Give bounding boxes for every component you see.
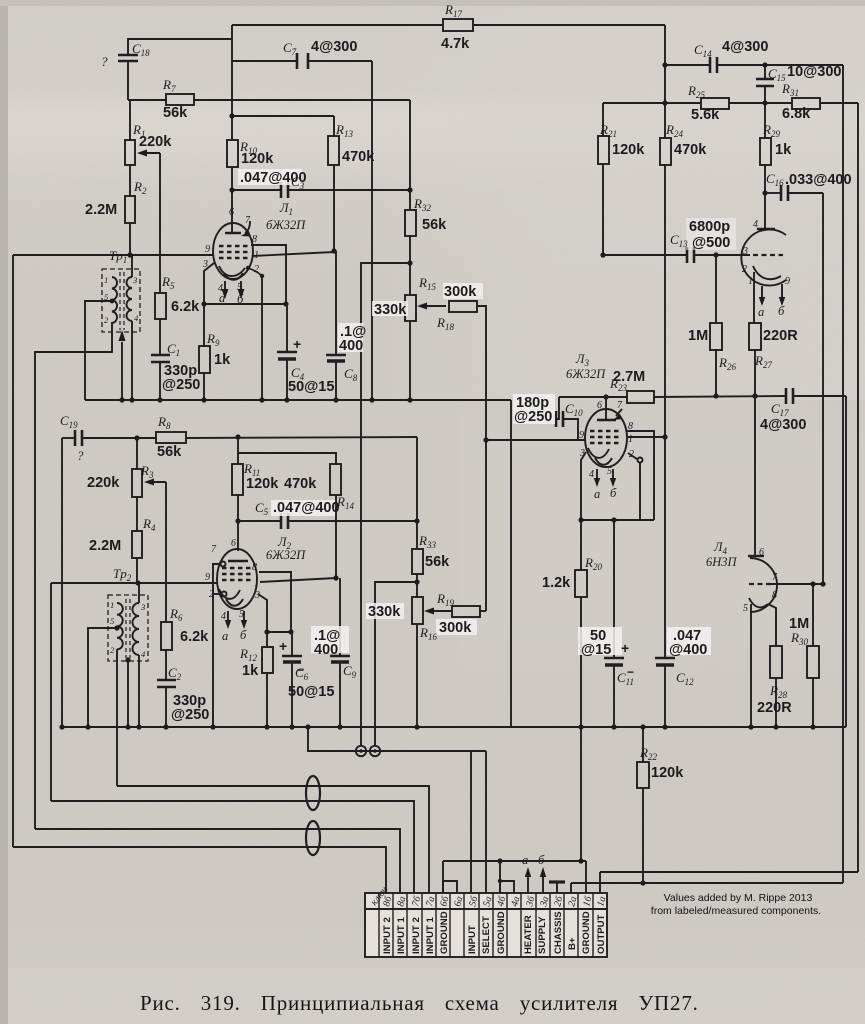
wire: stage2 cathode line y=632 <box>267 631 291 633</box>
capacitor C7 <box>296 53 299 69</box>
wire: vertical x=232 from top wire to R10 <box>231 25 233 140</box>
wire: select risers to connector 5b 5a <box>470 751 472 893</box>
svg-text:@15: @15 <box>581 642 611 658</box>
wire: input line 7b <box>51 801 414 893</box>
heater arrow a (3b) <box>527 874 529 893</box>
resistor R27 220R <box>749 323 761 350</box>
Л3 pin6 stub <box>605 397 607 420</box>
svg-text:3: 3 <box>202 259 208 270</box>
wire: B+ riser at connector 2a <box>570 883 572 893</box>
heater arrow b (3a) <box>542 874 544 893</box>
capacitor C16 <box>765 192 781 194</box>
svg-text:1: 1 <box>104 275 108 285</box>
svg-text:330k: 330k <box>374 302 407 318</box>
Л1 pin1 anode wire <box>252 252 334 256</box>
capacitor C5 <box>280 513 283 529</box>
capacitor C9 <box>339 578 341 656</box>
wire: R23 line y=397 <box>559 396 627 398</box>
shielded pair oval 2 <box>306 821 320 855</box>
svg-text:а: а <box>222 629 228 643</box>
Tp2 primary winding <box>117 603 123 649</box>
Л3 pin7 arrow <box>616 409 622 416</box>
capacitor C3 <box>280 182 283 198</box>
svg-text:GROUND: GROUND <box>496 911 507 954</box>
resistor R12 <box>266 632 268 647</box>
svg-text:4: 4 <box>589 469 594 480</box>
wire: feedback tap left then down to select <box>361 263 410 746</box>
wire: Tp2 pin4 down to rail <box>138 655 140 727</box>
Л1 pin7 arrow <box>245 221 250 233</box>
wire: output riser at connector 1a <box>599 872 601 893</box>
wiper arrow R15 from R18 <box>421 305 446 307</box>
wire: top wire corner down x=665 <box>664 25 666 138</box>
Л1 heater legs with arrows <box>224 281 226 291</box>
wire: vertical x=372 from C7 down to stage1 rail <box>371 61 373 400</box>
svg-text:4: 4 <box>221 611 226 622</box>
resistor R23 2.7M <box>627 391 654 403</box>
node: rail dots stage1 <box>119 397 124 402</box>
svg-text:б: б <box>240 628 247 642</box>
svg-text:300k: 300k <box>439 620 472 636</box>
resistor R22 120k <box>640 724 645 729</box>
Л2 pin7 circle <box>221 562 226 567</box>
svg-text:1.2k: 1.2k <box>542 575 571 591</box>
Tp2 secondary winding <box>133 603 139 655</box>
potentiometer R3 <box>136 438 138 469</box>
wire: Л3 grid line y=440 <box>486 439 586 441</box>
svg-text:50@15: 50@15 <box>288 379 334 395</box>
resistor R20 1.2k <box>580 520 582 570</box>
svg-text:6: 6 <box>231 538 236 549</box>
Tp1 core ground arrow <box>121 342 123 400</box>
jack circle A <box>356 746 366 756</box>
wire: riser 6b to bus <box>442 861 444 893</box>
svg-text:3: 3 <box>132 275 137 285</box>
Л3 pin8 wire down right <box>626 431 654 520</box>
Л4b grid dashes <box>749 583 771 585</box>
wire: plate stub x=755 down <box>754 396 756 556</box>
wire: stage2 feedback tap to select <box>375 582 417 746</box>
Л2 cathode arc <box>219 589 240 599</box>
svg-text:HEATER: HEATER <box>523 915 534 954</box>
svg-text:1: 1 <box>110 600 114 610</box>
resistor R19 <box>452 606 480 617</box>
svg-text:B+: B+ <box>567 937 578 950</box>
svg-text:400: 400 <box>339 338 363 354</box>
svg-text:−: − <box>297 663 304 677</box>
svg-text:6Ж32П: 6Ж32П <box>566 367 606 381</box>
svg-text:8: 8 <box>772 590 777 601</box>
svg-text:@250: @250 <box>162 377 200 393</box>
resistor R29 <box>764 103 766 138</box>
tube U4a (Л4 upper triode) <box>741 229 786 285</box>
wire: Tp1 pin2 down-left route <box>35 322 112 829</box>
transformer Tp2 dashed box <box>108 595 148 661</box>
svg-text:5: 5 <box>110 616 114 626</box>
svg-text:10@300: 10@300 <box>787 64 841 80</box>
svg-text:5: 5 <box>237 282 242 293</box>
capacitor C13 <box>686 247 689 263</box>
Tp1 secondary winding <box>127 277 133 321</box>
transformer winding numbers <box>104 275 146 659</box>
Tp1 primary winding <box>112 277 117 323</box>
svg-text:3: 3 <box>579 448 585 459</box>
Л3 pin1 anode wire <box>627 436 665 438</box>
capacitor C6 electrolytic <box>291 632 293 656</box>
wire: R14 bottom to anode node <box>335 521 337 578</box>
svg-text:?: ? <box>101 54 108 69</box>
wire: input line 8a <box>35 829 400 893</box>
tube U2 (Л2) envelope <box>217 549 257 609</box>
tube U1 (Л1) envelope <box>213 223 253 279</box>
svg-text:220R: 220R <box>757 700 792 716</box>
Л4a cathode leg to R27 <box>754 272 755 323</box>
svg-text:56k: 56k <box>422 217 447 233</box>
bridge 4b-4a <box>500 881 514 893</box>
Л4a grid dashes <box>753 254 783 256</box>
svg-text:6: 6 <box>597 400 602 411</box>
svg-text:б: б <box>237 292 244 306</box>
svg-text:1k: 1k <box>775 142 792 158</box>
capacitor C18 <box>118 54 138 57</box>
Л2 heater legs with arrows <box>227 611 229 623</box>
svg-text:+: + <box>279 638 287 654</box>
svg-text:300k: 300k <box>444 284 477 300</box>
capacitor C14 <box>709 57 712 73</box>
svg-text:б: б <box>778 304 785 318</box>
svg-text:INPUT 1: INPUT 1 <box>425 917 436 954</box>
wire: output vertical x=858 <box>857 103 859 872</box>
wire: riser 4b to bus <box>499 861 501 893</box>
capacitor C1 <box>151 354 170 357</box>
svg-text:56k: 56k <box>425 554 450 570</box>
svg-text:6.2k: 6.2k <box>171 299 200 315</box>
svg-text:4.7k: 4.7k <box>441 36 470 52</box>
svg-text:9: 9 <box>205 572 210 583</box>
node R10/C3 <box>229 187 234 192</box>
Л2 pin8 wire to cathode box <box>259 572 291 632</box>
resistor R8 <box>156 432 186 443</box>
Л2 shield bracket to rail <box>213 564 221 727</box>
tube U3 (Л3) envelope <box>585 409 627 467</box>
svg-text:1: 1 <box>254 250 259 261</box>
node Tp1 top <box>127 252 132 257</box>
wire: input line 7a <box>117 786 429 893</box>
Л4b cathode leg pin5 <box>750 604 752 727</box>
wire: output line y=872 <box>600 871 858 873</box>
svg-text:@250: @250 <box>171 707 209 723</box>
node R26 top <box>713 252 718 257</box>
svg-text:from labeled/measured componen: from labeled/measured components. <box>651 905 821 917</box>
Л1 cathode arc <box>219 266 245 276</box>
resistor R28 220R <box>770 646 782 678</box>
resistor R32 <box>405 210 416 236</box>
Л2 grid dashes <box>222 567 252 569</box>
Л2 pin1 anode wire <box>260 578 336 582</box>
wire: C18 top hook <box>128 39 232 55</box>
svg-text:56k: 56k <box>163 105 188 121</box>
node C5 left <box>235 518 240 523</box>
svg-text:а: а <box>522 853 528 867</box>
Л4a heater legs with arrows <box>761 286 763 300</box>
Л1 plate bar <box>225 232 241 235</box>
resistor R24 <box>660 138 671 165</box>
wire: vertical x=410 R7 line down <box>409 100 411 210</box>
node C14 left <box>662 62 667 67</box>
svg-text:@400: @400 <box>669 642 707 658</box>
svg-text:220k: 220k <box>87 475 120 491</box>
wire: R24 anode node <box>662 434 667 439</box>
svg-text:2: 2 <box>209 589 214 600</box>
resistor R17 <box>443 19 473 31</box>
resistor R30 1M <box>812 584 814 646</box>
svg-text:9: 9 <box>579 430 584 441</box>
wire: cathode line y=304 <box>204 303 286 305</box>
svg-text:INPUT: INPUT <box>467 925 478 954</box>
Л3 pin3 cathode stub <box>581 452 586 520</box>
resistor R4 <box>132 531 142 558</box>
svg-text:2: 2 <box>254 264 259 275</box>
Л1 pin2 stub down <box>246 266 250 270</box>
wire: input line 8b <box>13 847 386 893</box>
svg-text:1: 1 <box>254 578 259 589</box>
wiper arrow R16 from R19 <box>428 610 452 612</box>
connector cell dividers <box>379 893 593 957</box>
wire: C17 right vertical to rail end <box>845 396 847 727</box>
svg-text:120k: 120k <box>246 476 279 492</box>
capacitor C19 <box>62 437 75 439</box>
resistor R10 <box>227 140 238 167</box>
svg-text:330k: 330k <box>368 604 401 620</box>
resistor R6 <box>161 622 172 650</box>
svg-text:Values added by M. Rippe 2013: Values added by M. Rippe 2013 <box>664 892 813 904</box>
svg-text:OUTPUT: OUTPUT <box>596 914 607 954</box>
wire: ground bus y=861 <box>443 860 586 862</box>
svg-text:470k: 470k <box>674 142 707 158</box>
svg-text:220R: 220R <box>763 328 798 344</box>
wire: tube pin6 stub <box>231 190 233 233</box>
capacitor C10 with dogleg <box>556 397 559 419</box>
resistor R21 <box>602 103 604 136</box>
svg-text:а: а <box>758 305 764 319</box>
svg-text:4@300: 4@300 <box>722 39 768 55</box>
Л4b cathode arc <box>749 598 768 607</box>
wire: C14 line y=65 <box>665 64 710 66</box>
resistor R9 <box>203 304 205 346</box>
jack circle B <box>370 746 380 756</box>
svg-text:50@15: 50@15 <box>288 684 334 700</box>
resistor R11 <box>237 437 239 464</box>
svg-text:2: 2 <box>742 264 747 275</box>
node R33/R16 <box>414 579 419 584</box>
wire: top B+ feed horizontal y=25 <box>232 24 443 26</box>
svg-text:.033@400: .033@400 <box>785 172 852 188</box>
svg-text:4: 4 <box>218 283 223 294</box>
node C13 left on R21 chain <box>600 252 605 257</box>
svg-text:INPUT 1: INPUT 1 <box>396 917 407 954</box>
capacitor C8 <box>335 251 337 355</box>
svg-text:56k: 56k <box>157 444 182 460</box>
svg-text:3: 3 <box>140 602 145 612</box>
Л3 cathode arc <box>588 448 609 458</box>
svg-text:+: + <box>293 336 301 352</box>
wire: far-left vertical x=13 <box>12 255 14 847</box>
svg-text:1k: 1k <box>214 352 231 368</box>
resistor R26 1M <box>715 255 717 323</box>
svg-text:6: 6 <box>759 547 764 558</box>
potentiometer R16 <box>412 597 423 624</box>
Л3 pin2 circle and stub <box>638 458 643 463</box>
wire: grid line left vertical x=51 down <box>50 583 52 801</box>
capacitor C4 electrolytic <box>286 304 288 352</box>
wire: C16 right vertical down to Л4 grid <box>822 193 824 584</box>
node R32/R15 <box>407 260 412 265</box>
wire: stage1 grid line y=255 <box>13 254 213 256</box>
wire: C7 line y=61 <box>232 60 297 62</box>
svg-text:5: 5 <box>104 292 108 302</box>
wire: Tp1 pin5 tap to left then rail <box>85 301 112 400</box>
wire: Л3 cathode line y=520 <box>581 519 654 521</box>
svg-text:400: 400 <box>314 642 338 658</box>
wire: Tp2 pin2 down to input line <box>116 649 118 786</box>
svg-text:INPUT 2: INPUT 2 <box>382 917 393 954</box>
svg-text:4@300: 4@300 <box>760 417 806 433</box>
svg-text:+: + <box>621 640 629 656</box>
capacitor C17 <box>785 388 788 404</box>
wire: C18 to R7 node <box>127 61 129 100</box>
white patches behind modern value labels <box>238 169 736 655</box>
svg-text:1: 1 <box>748 276 753 287</box>
svg-text:@250: @250 <box>514 409 552 425</box>
svg-text:2.2M: 2.2M <box>89 538 121 554</box>
capacitor C15 <box>764 65 766 79</box>
node plate feed <box>752 393 757 398</box>
plus/minus marks <box>279 336 634 679</box>
svg-text:CHASSIS: CHASSIS <box>553 911 564 954</box>
wire: C19 left vertical to rail <box>61 438 63 727</box>
Л4a plate bar <box>757 228 775 230</box>
tube pin numbers <box>202 207 790 622</box>
svg-text:б: б <box>538 853 545 867</box>
wire: Tp1 pin4 down to rail <box>131 321 133 400</box>
svg-text:б: б <box>610 486 617 500</box>
shielded pair oval 1 <box>306 776 320 810</box>
svg-text:8: 8 <box>628 421 633 432</box>
capacitor C2 <box>157 679 176 682</box>
svg-text:INPUT 2: INPUT 2 <box>411 917 422 954</box>
svg-text:8: 8 <box>252 562 257 573</box>
svg-text:9: 9 <box>785 276 790 287</box>
svg-text:1M: 1M <box>688 328 708 344</box>
svg-text:8: 8 <box>252 234 257 245</box>
Л4a cathode arc <box>753 266 781 279</box>
Л4b plate bar <box>748 555 764 557</box>
Л2 plate bar <box>228 560 248 562</box>
wire: select line y=751 <box>308 727 486 751</box>
resistor R14 <box>330 464 341 495</box>
wire: rail drop to main rail <box>510 400 512 727</box>
svg-text:6.8k: 6.8k <box>782 106 811 122</box>
Л1 grid dashes <box>219 245 248 247</box>
svg-text:4@300: 4@300 <box>311 39 357 55</box>
resistor R2 <box>125 196 135 223</box>
resistor R13 <box>328 136 339 165</box>
resistor R7 <box>166 94 194 105</box>
wire: Tp2 pin5 tap left to rail <box>88 628 117 727</box>
Л3 grid dashes <box>590 430 620 432</box>
Л3 heater legs with arrows <box>596 469 598 481</box>
wire: R8 line to R33 chain <box>186 437 417 438</box>
Tp1 core dashed lines <box>119 272 121 330</box>
svg-text:GROUND: GROUND <box>581 911 592 954</box>
svg-text:5: 5 <box>743 603 748 614</box>
wire: riser 1b to bus <box>585 861 587 893</box>
svg-text:5.6k: 5.6k <box>691 107 720 123</box>
wire: Tp2 pin3 to grid node <box>138 583 140 603</box>
svg-text:3: 3 <box>742 246 748 257</box>
wire: rail drop to ground bus <box>580 727 582 861</box>
Л4b grid wire <box>771 583 823 585</box>
svg-text:5: 5 <box>239 609 244 620</box>
resistor R31 <box>792 98 820 109</box>
Л3 plate bar <box>597 419 616 421</box>
Л2 pin2 circle <box>222 592 227 597</box>
wire: R7 line y=100 <box>128 99 166 101</box>
wire: C5 line y=521 <box>238 520 281 522</box>
capacitor C12 <box>664 437 666 658</box>
Л1 pin8 wire to cathode box <box>251 245 286 304</box>
bridge 6b-6a <box>443 881 457 893</box>
wiper arrow R3 <box>148 481 166 483</box>
resistor R18 <box>449 301 477 312</box>
wire: R18 right down to C10 node <box>477 306 486 440</box>
potentiometer R15 <box>405 295 416 321</box>
svg-text:5: 5 <box>607 466 612 477</box>
node C15 top <box>762 62 767 67</box>
svg-text:.047@400: .047@400 <box>273 500 340 516</box>
svg-text:SELECT: SELECT <box>481 916 492 954</box>
svg-text:@500: @500 <box>692 235 730 251</box>
node C19/R3 <box>134 435 139 440</box>
wire: C13 line y=255 <box>603 254 687 256</box>
svg-text:470k: 470k <box>342 149 375 165</box>
svg-text:бЖ32П: бЖ32П <box>266 218 306 232</box>
svg-text:6: 6 <box>229 207 234 218</box>
potentiometer R1 <box>129 100 131 140</box>
resistor R33 <box>416 521 418 549</box>
svg-text:−: − <box>627 665 634 679</box>
Л2 pin3 cathode stub <box>258 594 267 632</box>
wiper arrow R1 <box>141 152 160 154</box>
wire: B+ vertical x=843 <box>842 65 844 883</box>
svg-text:2.2M: 2.2M <box>85 202 117 218</box>
svg-text:3: 3 <box>254 590 260 601</box>
svg-text:1: 1 <box>628 434 633 445</box>
wire: R8 line corner down <box>416 437 418 521</box>
wire: C10 node down to R19 <box>485 440 487 611</box>
transformer Tp1 dashed box <box>102 269 140 332</box>
Tp2 core dashed lines <box>125 599 127 658</box>
wire: C3 line y=190 <box>232 189 281 191</box>
chassis symbol at 2b <box>549 880 565 883</box>
tube type labels <box>266 201 738 569</box>
wire: Tp1 pin3 to grid node <box>131 255 133 277</box>
resistor R5 <box>155 293 166 319</box>
wire: R11/R14 top link <box>238 453 336 464</box>
svg-text:6Н3П: 6Н3П <box>706 555 738 569</box>
heater a/b labels <box>219 291 785 867</box>
wire: R3 wiper to R6 top <box>165 482 167 622</box>
